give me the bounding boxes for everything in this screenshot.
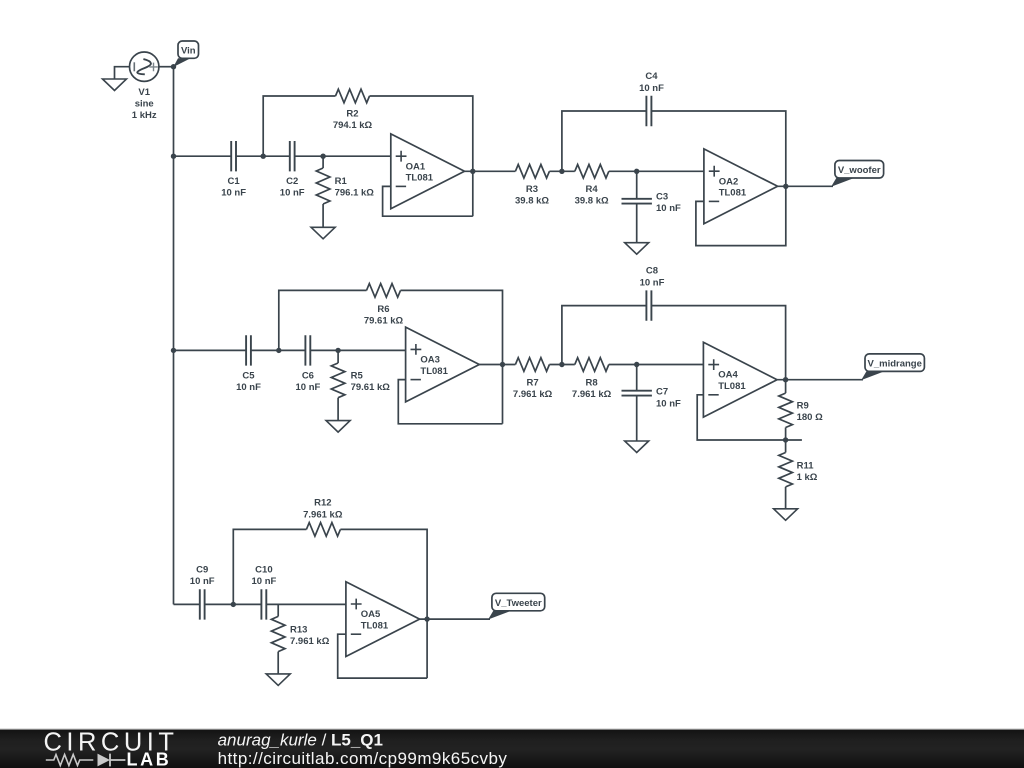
svg-text:R3: R3 xyxy=(526,184,538,195)
op-amp OA1 xyxy=(391,134,465,209)
svg-text:http://circuitlab.com/cp99m9k6: http://circuitlab.com/cp99m9k65cvby xyxy=(218,749,508,768)
wire xyxy=(159,66,174,68)
wire OA3 inverting loop xyxy=(398,380,502,424)
svg-text:10 nF: 10 nF xyxy=(251,576,276,587)
node Vin flag xyxy=(173,41,198,67)
wire OA2 output xyxy=(778,185,833,187)
junction R8-C7 node xyxy=(634,362,639,367)
resistor R8 xyxy=(572,358,612,400)
svg-text:C9: C9 xyxy=(196,565,208,576)
capacitor C5 xyxy=(236,335,261,393)
wire OA5 inverting loop xyxy=(338,634,427,678)
svg-text:C1: C1 xyxy=(228,176,241,187)
wire OA1 output xyxy=(465,170,516,172)
svg-text:C10: C10 xyxy=(255,565,272,576)
ground C7 xyxy=(625,441,649,453)
capacitor C7 xyxy=(622,365,682,442)
footer bar xyxy=(0,729,1024,768)
voltage source V1 xyxy=(130,52,159,121)
svg-text:TL081: TL081 xyxy=(719,188,747,199)
svg-text:TL081: TL081 xyxy=(718,381,746,392)
svg-text:R11: R11 xyxy=(797,461,815,472)
wire xyxy=(609,364,704,366)
wire C4 feedback xyxy=(562,111,786,186)
wire xyxy=(609,170,704,172)
svg-text:794.1 kΩ: 794.1 kΩ xyxy=(333,120,373,131)
resistor R3 xyxy=(515,165,549,207)
wire Vin vertical xyxy=(173,67,175,605)
op-amp OA5 xyxy=(346,582,420,657)
svg-text:39.8 kΩ: 39.8 kΩ xyxy=(575,196,609,207)
junction R9-R11 node xyxy=(783,437,788,442)
svg-text:1 kΩ: 1 kΩ xyxy=(797,472,818,483)
svg-text:R4: R4 xyxy=(586,184,599,195)
wire OA5 output xyxy=(420,618,490,620)
junction stage2 tap xyxy=(171,348,176,353)
svg-text:C7: C7 xyxy=(656,387,668,398)
svg-text:10 nF: 10 nF xyxy=(236,382,261,393)
svg-text:180 Ω: 180 Ω xyxy=(797,412,823,423)
resistor R1 xyxy=(316,156,374,227)
junction R1 node xyxy=(320,154,325,159)
svg-text:OA5: OA5 xyxy=(361,609,381,620)
wire R12 feedback xyxy=(233,529,427,678)
svg-text:79.61 kΩ: 79.61 kΩ xyxy=(364,316,404,327)
junction OA3 output xyxy=(500,362,505,367)
svg-text:7.961 kΩ: 7.961 kΩ xyxy=(513,389,553,400)
svg-text:V_midrange: V_midrange xyxy=(868,359,922,370)
svg-text:10 nF: 10 nF xyxy=(640,278,665,289)
svg-text:10 nF: 10 nF xyxy=(639,83,664,94)
svg-text:V_woofer: V_woofer xyxy=(838,165,881,176)
ground R5 xyxy=(326,421,350,433)
svg-text:R6: R6 xyxy=(377,304,389,315)
capacitor C1 xyxy=(221,141,246,199)
svg-text:R12: R12 xyxy=(314,498,331,509)
wire OA1 inverting loop xyxy=(383,186,473,216)
svg-text:OA1: OA1 xyxy=(406,161,426,172)
resistor R11 xyxy=(779,440,818,509)
capacitor C2 xyxy=(280,141,305,199)
svg-text:C2: C2 xyxy=(286,176,298,187)
svg-text:Vin: Vin xyxy=(181,46,196,57)
svg-text:OA3: OA3 xyxy=(420,355,440,366)
svg-text:V1: V1 xyxy=(138,87,150,98)
wire xyxy=(236,155,290,157)
svg-text:TL081: TL081 xyxy=(420,366,448,377)
resistor R6 xyxy=(364,284,404,327)
capacitor C3 xyxy=(622,171,682,242)
wire R2 feedback xyxy=(263,96,473,216)
junction OA5 output xyxy=(424,616,429,621)
junction C9-C10 node xyxy=(231,602,236,607)
resistor R2 xyxy=(333,89,373,131)
svg-text:OA2: OA2 xyxy=(719,176,739,187)
svg-text:C6: C6 xyxy=(302,371,314,382)
junction R7-R8 node xyxy=(559,362,564,367)
wire OA3 output xyxy=(479,364,515,366)
svg-text:39.8 kΩ: 39.8 kΩ xyxy=(515,196,549,207)
capacitor C8 xyxy=(640,266,665,321)
svg-text:79.61 kΩ: 79.61 kΩ xyxy=(351,382,391,393)
junction Vin xyxy=(171,64,176,69)
junction R5 node xyxy=(335,348,340,353)
svg-text:10 nF: 10 nF xyxy=(656,399,681,410)
svg-text:R1: R1 xyxy=(335,176,348,187)
resistor R7 xyxy=(513,358,553,400)
wire OA4 inverting loop xyxy=(697,395,802,440)
svg-text:C5: C5 xyxy=(242,371,255,382)
svg-text:TL081: TL081 xyxy=(406,173,434,184)
ground C3 xyxy=(625,243,649,255)
svg-text:10 nF: 10 nF xyxy=(221,188,246,199)
node V_midrange flag xyxy=(861,354,924,380)
svg-text:10 nF: 10 nF xyxy=(190,576,215,587)
wire xyxy=(205,603,261,605)
junction R4-C3 node xyxy=(634,169,639,174)
svg-text:7.961 kΩ: 7.961 kΩ xyxy=(290,636,330,647)
ground xyxy=(103,67,130,91)
junction stage1 tap xyxy=(171,154,176,159)
capacitor C9 xyxy=(190,565,215,620)
svg-text:10 nF: 10 nF xyxy=(295,382,320,393)
node V_Tweeter flag xyxy=(488,593,545,619)
op-amp OA2 xyxy=(704,149,778,224)
ground R11 xyxy=(774,509,798,521)
ground R13 xyxy=(266,674,290,686)
junction R3-R4 node xyxy=(559,169,564,174)
svg-text:R2: R2 xyxy=(346,109,358,120)
wire xyxy=(549,170,574,172)
junction OA2 output xyxy=(783,184,788,189)
svg-text:C3: C3 xyxy=(656,192,668,203)
wire xyxy=(174,155,232,157)
svg-text:C4: C4 xyxy=(645,71,658,82)
wire xyxy=(295,155,391,157)
svg-text:V_Tweeter: V_Tweeter xyxy=(495,598,542,609)
svg-text:C8: C8 xyxy=(646,266,658,277)
svg-text:R8: R8 xyxy=(586,378,598,389)
junction C5-C6 node xyxy=(276,348,281,353)
op-amp OA4 xyxy=(703,342,777,417)
svg-text:LAB: LAB xyxy=(127,750,172,768)
svg-text:R7: R7 xyxy=(527,378,539,389)
resistor R12 xyxy=(303,498,343,537)
junction OA1 output xyxy=(470,169,475,174)
svg-text:OA4: OA4 xyxy=(718,370,738,381)
wire OA4 output xyxy=(777,379,863,381)
svg-text:7.961 kΩ: 7.961 kΩ xyxy=(303,510,343,521)
junction OA4 output xyxy=(783,377,788,382)
capacitor C6 xyxy=(295,335,320,393)
svg-text:anurag_kurle / L5_Q1: anurag_kurle / L5_Q1 xyxy=(218,731,383,750)
wire xyxy=(549,364,574,366)
junction C1-C2 node xyxy=(261,154,266,159)
svg-text:sine: sine xyxy=(135,99,154,110)
capacitor C10 xyxy=(251,565,276,620)
svg-text:R5: R5 xyxy=(351,371,364,382)
wire xyxy=(267,603,346,605)
wire xyxy=(174,349,246,351)
svg-text:10 nF: 10 nF xyxy=(280,188,305,199)
ground R1 xyxy=(311,227,335,239)
op-amp OA3 xyxy=(406,327,480,402)
wire C8 feedback xyxy=(562,306,786,380)
resistor R4 xyxy=(575,165,609,207)
svg-text:TL081: TL081 xyxy=(361,620,389,631)
wire OA2 inverting loop xyxy=(696,186,786,245)
resistor R9 xyxy=(779,380,823,440)
wire R6 feedback xyxy=(279,290,503,423)
wire xyxy=(311,349,406,351)
svg-text:796.1 kΩ: 796.1 kΩ xyxy=(335,188,375,199)
svg-text:R13: R13 xyxy=(290,625,307,636)
svg-text:R9: R9 xyxy=(797,401,809,412)
wire xyxy=(174,603,200,605)
resistor R13 xyxy=(271,604,329,674)
resistor R5 xyxy=(331,350,390,420)
wire xyxy=(251,349,305,351)
svg-text:7.961 kΩ: 7.961 kΩ xyxy=(572,389,612,400)
svg-text:10 nF: 10 nF xyxy=(656,203,681,214)
capacitor C4 xyxy=(639,71,664,126)
svg-text:1 kHz: 1 kHz xyxy=(132,110,157,121)
node V_woofer flag xyxy=(831,161,884,187)
